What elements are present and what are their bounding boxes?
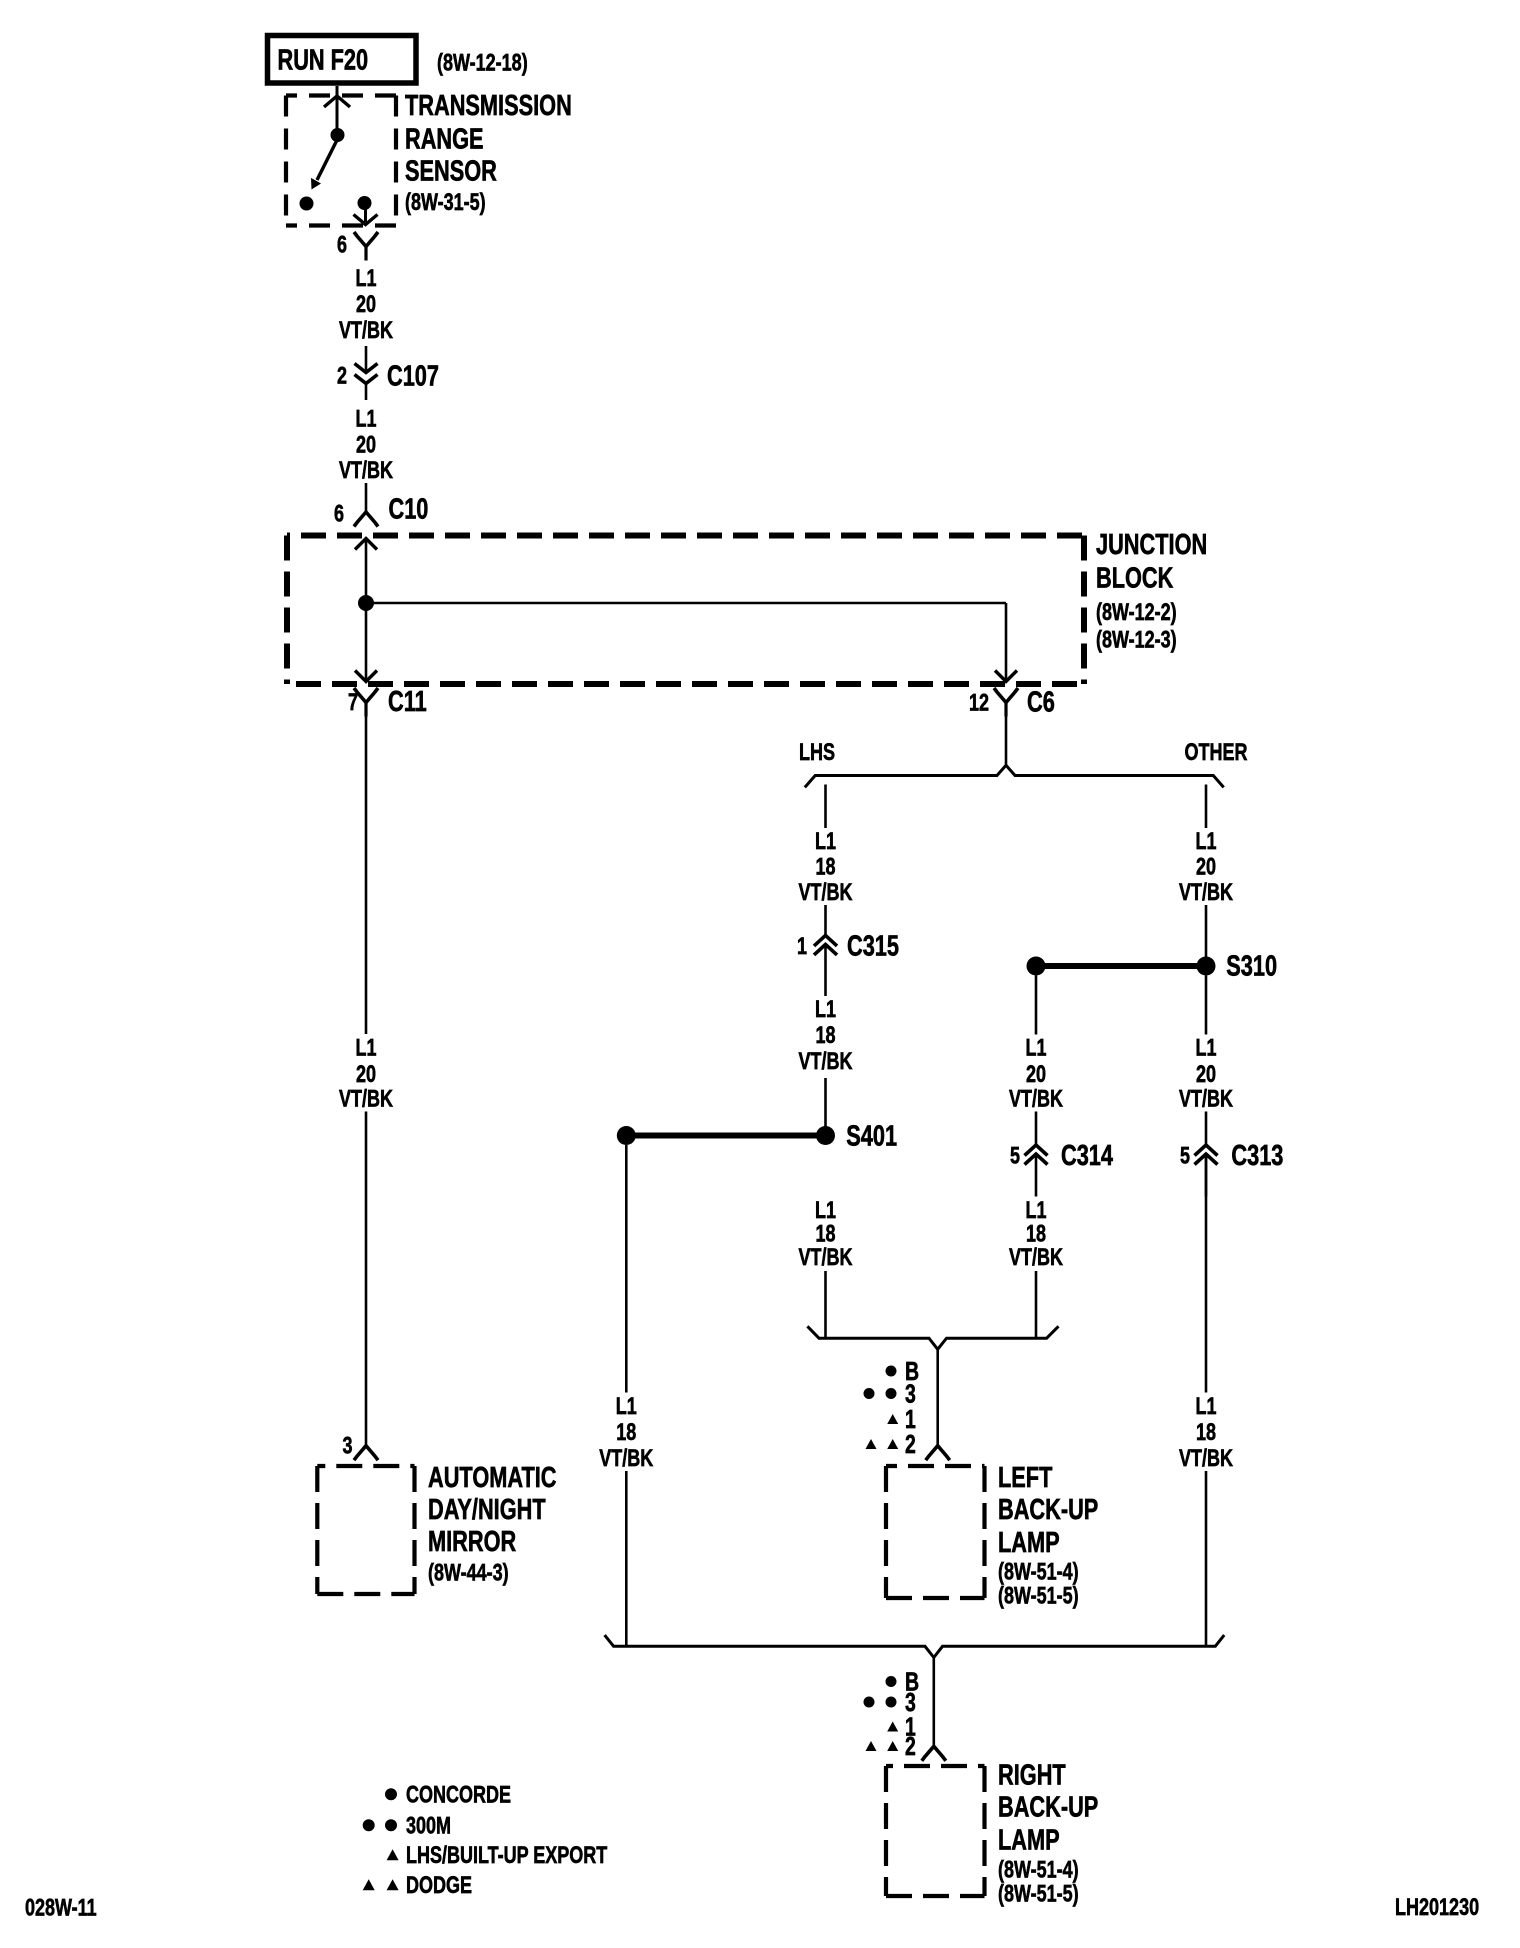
label C315 <box>847 931 899 963</box>
arrowhead up inside block at C10 <box>355 539 377 550</box>
label C313 <box>1231 1140 1283 1172</box>
switch blade arrowhead <box>311 178 321 190</box>
wire merge to right lamp <box>932 1658 935 1747</box>
wire C11 to mirror lower <box>365 1112 368 1446</box>
pin 12 label <box>969 689 989 716</box>
arrowhead down inside block at C6 <box>995 671 1017 682</box>
marker 3 row (right lamp) <box>864 1687 916 1717</box>
wire into C315 <box>824 905 827 935</box>
svg-text:S401: S401 <box>846 1120 897 1152</box>
svg-text:1: 1 <box>797 933 807 960</box>
svg-text:VT/BK: VT/BK <box>599 1445 654 1472</box>
svg-text:VT/BK: VT/BK <box>1179 1085 1234 1112</box>
junction dot inside block <box>358 595 374 611</box>
label C6 <box>1027 687 1055 719</box>
wire into C10 <box>365 483 368 512</box>
svg-text:2: 2 <box>905 1731 916 1761</box>
svg-text:18: 18 <box>816 853 836 880</box>
svg-text:300M: 300M <box>406 1813 451 1840</box>
pin 5 label C313 <box>1180 1142 1190 1169</box>
svg-text:20: 20 <box>1196 853 1216 880</box>
svg-text:AUTOMATIC: AUTOMATIC <box>428 1462 557 1494</box>
label AUTOMATIC DAY/NIGHT MIRROR <box>428 1462 557 1586</box>
label C11 <box>388 686 427 718</box>
label 18 (C313b) <box>1196 1419 1216 1446</box>
svg-text:2: 2 <box>905 1429 916 1459</box>
wire switch common to fuse <box>336 86 339 135</box>
svg-text:20: 20 <box>356 1061 376 1088</box>
marker 2 row (right lamp) <box>866 1731 916 1761</box>
transmission range sensor box <box>286 96 396 226</box>
label VT/BK (C313b) <box>1179 1445 1234 1472</box>
svg-text:6: 6 <box>337 231 347 258</box>
wire C315 branch to merge <box>824 1271 827 1338</box>
label 20 (A-left) <box>356 1061 376 1088</box>
wire into C313 <box>1205 1112 1208 1146</box>
marker 3 row (left lamp) <box>864 1378 916 1408</box>
svg-text:C6: C6 <box>1027 687 1055 719</box>
svg-text:3: 3 <box>343 1432 353 1459</box>
label L1 (A-c314) <box>1026 1034 1047 1061</box>
connector fork C6 <box>994 688 1018 717</box>
svg-text:VT/BK: VT/BK <box>1009 1085 1064 1112</box>
marker 2 row (left lamp) <box>866 1429 916 1459</box>
svg-text:20: 20 <box>356 432 376 459</box>
svg-text:VT/BK: VT/BK <box>799 1048 854 1075</box>
wire into C314 <box>1035 1112 1038 1146</box>
svg-text:DODGE: DODGE <box>406 1872 472 1899</box>
wire S310 left leg <box>1035 976 1038 1035</box>
connector fork pin 6 <box>354 232 378 261</box>
svg-text:VT/BK: VT/BK <box>1179 1445 1234 1472</box>
marker B row (left lamp) <box>886 1356 920 1386</box>
wire LHS stub <box>824 785 827 829</box>
svg-text:(8W-31-5): (8W-31-5) <box>405 189 486 216</box>
svg-text:L1: L1 <box>616 1393 637 1420</box>
switch output contact dot <box>358 196 372 210</box>
sheet number 028W-11 <box>25 1895 97 1922</box>
label 20 (2) <box>356 432 376 459</box>
connector C314 symbol <box>1025 1145 1048 1197</box>
svg-text:C107: C107 <box>387 361 439 393</box>
svg-text:VT/BK: VT/BK <box>339 317 394 344</box>
svg-text:BACK-UP: BACK-UP <box>998 1494 1098 1526</box>
label C10 <box>389 494 429 526</box>
arrowhead down inside block at C11 <box>355 671 377 682</box>
wire S310 right leg <box>1205 976 1208 1035</box>
label JUNCTION BLOCK <box>1096 529 1207 653</box>
label L1 (A-left) <box>356 1034 377 1061</box>
svg-text:VT/BK: VT/BK <box>1179 879 1234 906</box>
svg-text:C315: C315 <box>847 931 899 963</box>
label VT/BK (A-c314) <box>1009 1085 1064 1112</box>
svg-text:C314: C314 <box>1061 1140 1113 1172</box>
merge bracket left lamp <box>807 1326 1058 1349</box>
wire S401 left leg lower <box>625 1471 628 1646</box>
split bracket under C6 <box>805 765 1224 787</box>
label S310 <box>1226 951 1277 983</box>
svg-text:(8W-51-5): (8W-51-5) <box>998 1880 1079 1907</box>
pin 1 label <box>797 933 807 960</box>
svg-text:BACK-UP: BACK-UP <box>998 1792 1098 1824</box>
pin 6 label C10 <box>334 500 344 527</box>
svg-text:RANGE: RANGE <box>405 124 484 156</box>
svg-text:VT/BK: VT/BK <box>799 879 854 906</box>
arrowhead down at sensor box bottom <box>354 215 378 225</box>
svg-text:6: 6 <box>334 500 344 527</box>
label 20 (1) <box>356 291 376 318</box>
pin 7 label <box>348 689 358 716</box>
label C107 <box>387 361 439 393</box>
label VT/BK (LHS) <box>799 879 854 906</box>
svg-text:(8W-51-4): (8W-51-4) <box>998 1856 1079 1883</box>
splice S401 dots and bar <box>617 1126 835 1145</box>
svg-text:5: 5 <box>1180 1142 1190 1169</box>
label 20 (A-c314) <box>1026 1061 1046 1088</box>
marker 1 row (right lamp) <box>887 1711 916 1741</box>
connector fork right lamp <box>922 1746 946 1761</box>
wire into C107 <box>365 346 368 371</box>
connector fork C10 <box>354 512 378 527</box>
label L1 (M) <box>815 996 836 1023</box>
label L1 (S4) <box>815 1197 836 1224</box>
marker 1 row (left lamp) <box>887 1404 916 1434</box>
svg-text:C313: C313 <box>1231 1140 1283 1172</box>
label VT/BK (A-c313) <box>1179 1085 1234 1112</box>
svg-text:S310: S310 <box>1226 951 1277 983</box>
svg-text:12: 12 <box>969 689 989 716</box>
wire C11 to mirror upper <box>365 717 368 1035</box>
svg-text:L1: L1 <box>356 405 377 432</box>
svg-text:7: 7 <box>348 689 358 716</box>
wire merge to left lamp <box>936 1349 939 1445</box>
svg-text:LHS/BUILT-UP EXPORT: LHS/BUILT-UP EXPORT <box>406 1842 608 1869</box>
svg-text:L1: L1 <box>1196 1034 1217 1061</box>
connector C107 symbol <box>355 364 378 401</box>
wire inside junction block vertical right <box>1005 603 1008 682</box>
svg-text:(8W-12-2): (8W-12-2) <box>1096 599 1177 626</box>
label VT/BK (OTHER) <box>1179 879 1234 906</box>
junction block dashed box <box>287 536 1084 685</box>
label VT/BK (1) <box>339 317 394 344</box>
svg-text:RIGHT: RIGHT <box>998 1760 1066 1792</box>
wire C313 to merge upper <box>1205 1157 1208 1393</box>
svg-text:LH201230: LH201230 <box>1395 1894 1479 1921</box>
label RUN F20 <box>278 44 369 76</box>
label 18 (S4) <box>816 1220 836 1247</box>
legend CONCORDE <box>385 1782 511 1809</box>
label L1 (LHS) <box>815 828 836 855</box>
label 20 (OTHER) <box>1196 853 1216 880</box>
wire C6 to split <box>1005 717 1008 767</box>
svg-text:DAY/NIGHT: DAY/NIGHT <box>428 1494 546 1526</box>
svg-text:5: 5 <box>1010 1142 1020 1169</box>
label VT/BK (S4) <box>799 1244 854 1271</box>
wire C314 branch to merge <box>1035 1271 1038 1338</box>
pin 2 label <box>337 362 347 389</box>
label VT/BK (M) <box>799 1048 854 1075</box>
svg-text:SENSOR: SENSOR <box>405 156 497 188</box>
switch common contact dot <box>331 128 345 142</box>
label 18 (M) <box>816 1022 836 1049</box>
label L1 (2) <box>356 405 377 432</box>
legend 300M <box>363 1813 451 1840</box>
svg-text:CONCORDE: CONCORDE <box>406 1782 511 1809</box>
label 18 (S4L) <box>616 1419 636 1446</box>
svg-text:18: 18 <box>816 1022 836 1049</box>
label L1 (C314b) <box>1026 1197 1047 1224</box>
svg-text:LHS: LHS <box>799 739 835 766</box>
svg-text:(8W-51-5): (8W-51-5) <box>998 1582 1079 1609</box>
svg-text:C10: C10 <box>389 494 429 526</box>
wire OTHER stub <box>1205 785 1208 829</box>
label 20 (A-c313) <box>1196 1061 1216 1088</box>
pin 6 label <box>337 231 347 258</box>
wire S401 left leg <box>625 1145 628 1393</box>
svg-text:20: 20 <box>1196 1061 1216 1088</box>
connector C315 symbol <box>814 935 837 996</box>
label VT/BK (C314b) <box>1009 1244 1064 1271</box>
pin 5 label C314 <box>1010 1142 1020 1169</box>
label L1 (A-c313) <box>1196 1034 1217 1061</box>
svg-text:JUNCTION: JUNCTION <box>1096 529 1207 561</box>
svg-text:028W-11: 028W-11 <box>25 1895 97 1922</box>
svg-text:VT/BK: VT/BK <box>339 457 394 484</box>
svg-text:RUN F20: RUN F20 <box>278 44 369 76</box>
svg-text:VT/BK: VT/BK <box>799 1244 854 1271</box>
svg-text:L1: L1 <box>1196 828 1217 855</box>
drawing number LH201230 <box>1395 1894 1479 1921</box>
fuse RUN F20 box <box>268 36 417 84</box>
connector fork C11 <box>354 688 378 717</box>
left back-up lamp box <box>886 1466 985 1598</box>
connector fork left lamp <box>926 1446 950 1461</box>
wire inside junction block vertical left <box>365 539 368 682</box>
wire into S401 <box>824 1078 827 1127</box>
label L1 (1) <box>356 265 377 292</box>
svg-text:LAMP: LAMP <box>998 1527 1060 1559</box>
svg-text:20: 20 <box>1026 1061 1046 1088</box>
svg-text:20: 20 <box>356 291 376 318</box>
switch contact dot lower left <box>300 197 314 211</box>
label TRANSMISSION RANGE SENSOR <box>405 90 572 216</box>
merge bracket right lamp <box>605 1635 1225 1657</box>
reference (8W-12-18) <box>437 49 528 76</box>
svg-text:OTHER: OTHER <box>1185 739 1248 766</box>
connector C313 symbol <box>1195 1145 1218 1197</box>
svg-text:2: 2 <box>337 362 347 389</box>
svg-text:LEFT: LEFT <box>998 1462 1053 1494</box>
svg-text:L1: L1 <box>356 265 377 292</box>
svg-text:L1: L1 <box>815 828 836 855</box>
svg-text:18: 18 <box>616 1419 636 1446</box>
arrowhead up at sensor box top <box>324 96 350 107</box>
svg-text:(8W-12-3): (8W-12-3) <box>1096 626 1177 653</box>
label VT/BK (S4L) <box>599 1445 654 1472</box>
label 18 (C314b) <box>1026 1220 1046 1247</box>
wire inside junction block horizontal <box>366 602 1006 605</box>
label LEFT BACK-UP LAMP <box>998 1462 1098 1609</box>
label L1 (OTHER) <box>1196 828 1217 855</box>
label VT/BK (A-left) <box>339 1085 394 1112</box>
svg-text:L1: L1 <box>1026 1034 1047 1061</box>
svg-text:(8W-44-3): (8W-44-3) <box>428 1559 509 1586</box>
label OTHER <box>1185 739 1248 766</box>
svg-text:L1: L1 <box>356 1034 377 1061</box>
svg-text:TRANSMISSION: TRANSMISSION <box>405 90 572 122</box>
label L1 (S4L) <box>616 1393 637 1420</box>
right back-up lamp box <box>886 1766 985 1896</box>
svg-text:18: 18 <box>1196 1419 1216 1446</box>
svg-text:VT/BK: VT/BK <box>339 1085 394 1112</box>
svg-text:(8W-12-18): (8W-12-18) <box>437 49 528 76</box>
label VT/BK (2) <box>339 457 394 484</box>
svg-text:L1: L1 <box>1196 1393 1217 1420</box>
label LHS <box>799 739 835 766</box>
marker B row (right lamp) <box>886 1666 920 1696</box>
label C314 <box>1061 1140 1113 1172</box>
legend DODGE <box>363 1872 472 1899</box>
svg-text:L1: L1 <box>815 996 836 1023</box>
label RIGHT BACK-UP LAMP <box>998 1760 1098 1908</box>
svg-text:VT/BK: VT/BK <box>1009 1244 1064 1271</box>
switch blade <box>317 138 338 180</box>
splice S310 dots and bar <box>1027 957 1216 976</box>
wire switch output <box>364 206 367 222</box>
label 18 (LHS) <box>816 853 836 880</box>
automatic day/night mirror box <box>317 1466 414 1594</box>
svg-text:LAMP: LAMP <box>998 1825 1060 1857</box>
svg-text:(8W-51-4): (8W-51-4) <box>998 1558 1079 1585</box>
svg-text:C11: C11 <box>388 686 427 718</box>
pin 3 label <box>343 1432 353 1459</box>
label L1 (C313b) <box>1196 1393 1217 1420</box>
wire into S310 <box>1205 905 1208 957</box>
svg-text:BLOCK: BLOCK <box>1096 563 1173 595</box>
wire C313 to merge lower <box>1205 1471 1208 1646</box>
svg-text:MIRROR: MIRROR <box>428 1526 516 1558</box>
legend LHS/BUILT-UP EXPORT <box>387 1842 608 1869</box>
connector fork mirror <box>354 1446 378 1461</box>
label S401 <box>846 1120 897 1152</box>
